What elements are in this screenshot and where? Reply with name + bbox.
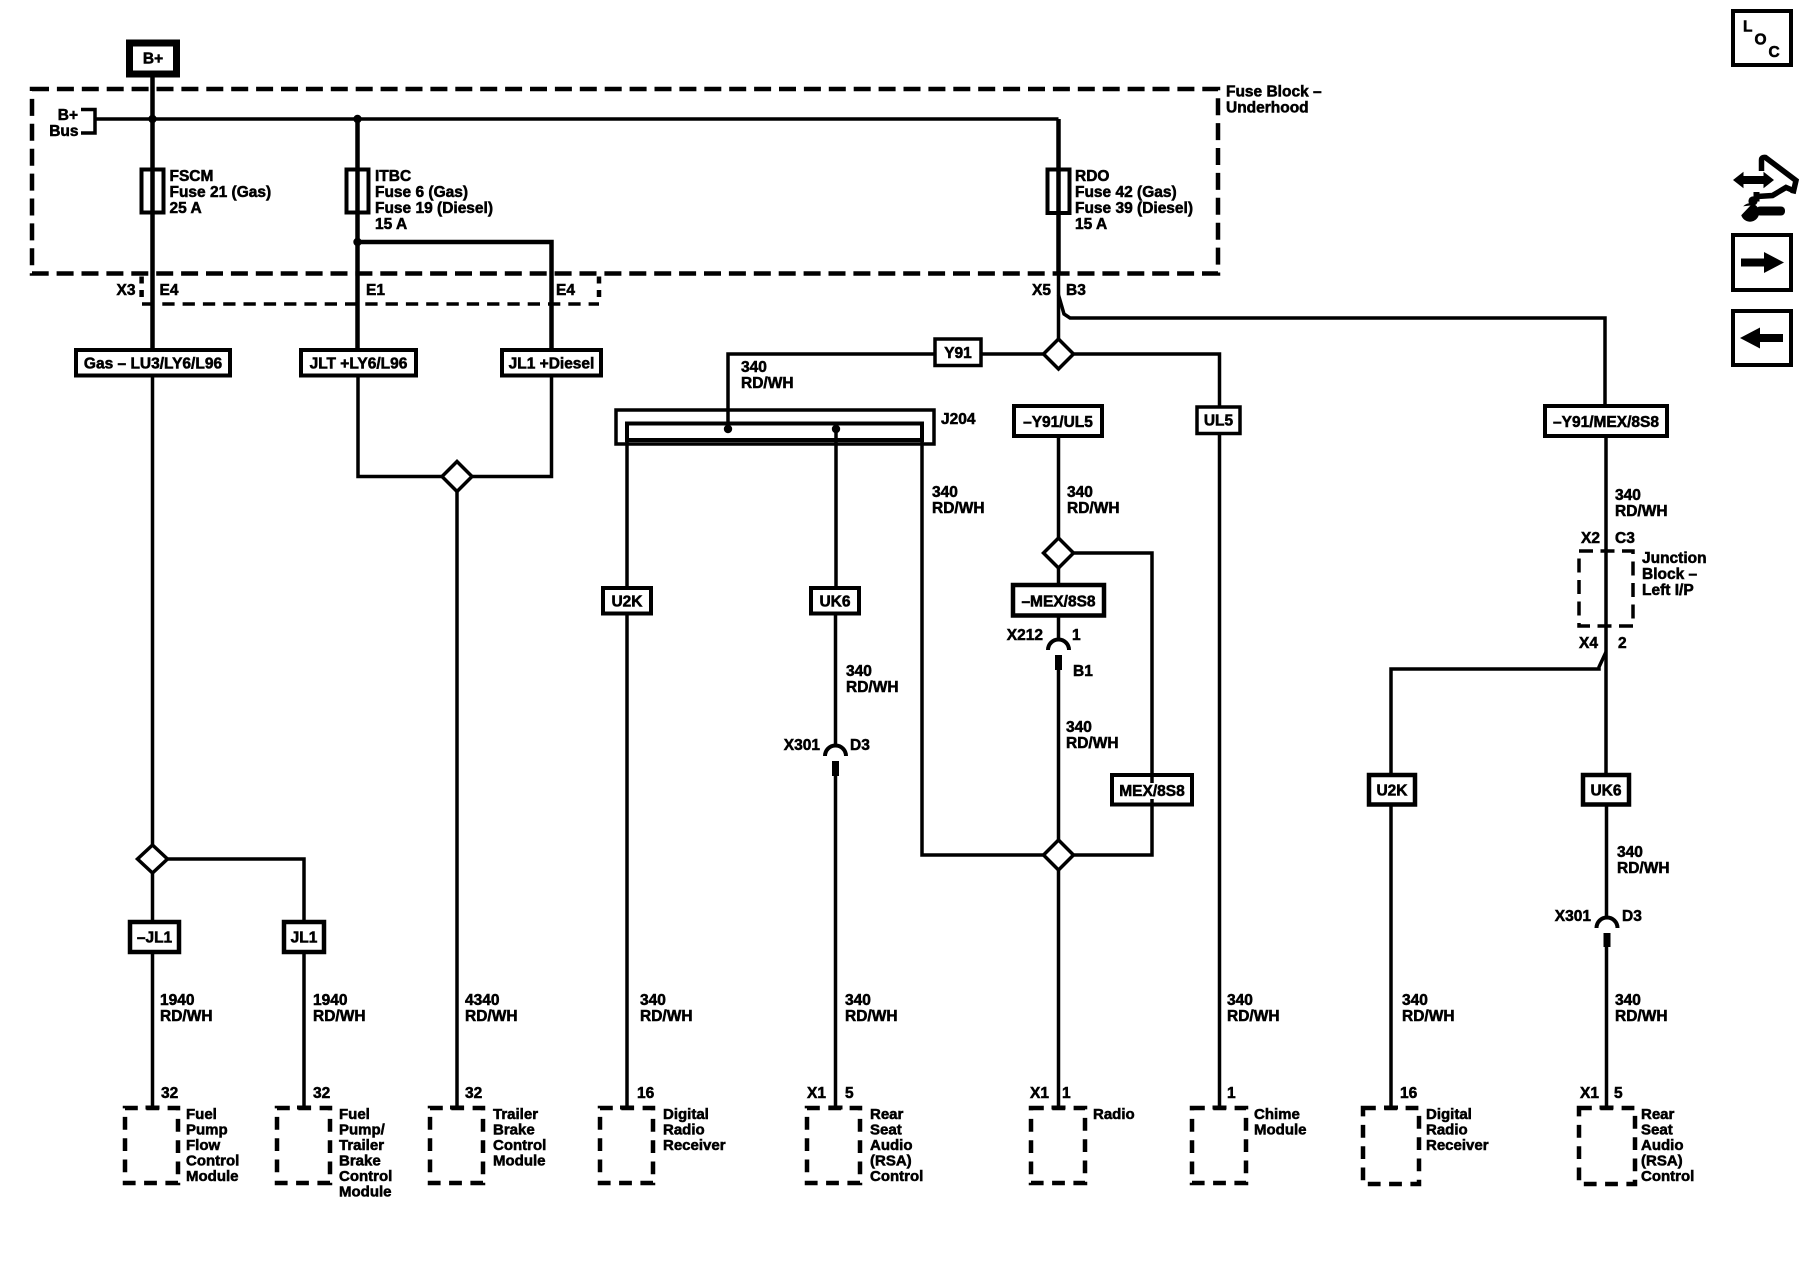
svg-text:Pump/: Pump/ <box>339 1122 386 1139</box>
svg-text:340: 340 <box>1227 992 1253 1009</box>
svg-text:Receiver: Receiver <box>1426 1137 1489 1154</box>
svg-text:Fuse 39 (Diesel): Fuse 39 (Diesel) <box>1075 200 1193 217</box>
svg-text:Seat: Seat <box>1641 1122 1673 1139</box>
svg-text:JL1 +Diesel: JL1 +Diesel <box>509 356 595 373</box>
svg-text:Underhood: Underhood <box>1226 100 1309 117</box>
svg-text:RD/WH: RD/WH <box>1402 1008 1455 1025</box>
svg-text:RD/WH: RD/WH <box>1227 1008 1280 1025</box>
option box U2K <box>603 588 651 614</box>
wire J204 right tap down <box>922 440 1044 855</box>
wire JLT drop to merge diamond <box>358 376 444 477</box>
svg-text:Gas – LU3/LY6/L96: Gas – LU3/LY6/L96 <box>84 356 223 373</box>
fuse ITBC Fuse 6 <box>347 170 369 213</box>
option box -MEX/8S8 <box>1013 585 1104 616</box>
svg-text:1: 1 <box>1072 627 1081 644</box>
svg-text:1: 1 <box>1062 1085 1071 1102</box>
option box Gas LU3/LY6/L96 <box>76 350 230 376</box>
svg-text:Brake: Brake <box>493 1122 535 1139</box>
svg-text:–JL1: –JL1 <box>137 930 173 947</box>
svg-text:Control: Control <box>1641 1168 1694 1185</box>
svg-text:Audio: Audio <box>1641 1137 1684 1154</box>
svg-text:Brake: Brake <box>339 1153 381 1170</box>
wire -Y91/UL5 drop <box>1057 436 1061 538</box>
svg-text:340: 340 <box>1066 719 1092 736</box>
wire label 340 RD/WH col7 <box>1227 992 1280 1025</box>
svg-text:RD/WH: RD/WH <box>845 1008 898 1025</box>
wire branch to JL1 box <box>168 859 305 922</box>
svg-text:Receiver: Receiver <box>663 1137 726 1154</box>
svg-text:RD/WH: RD/WH <box>932 500 985 517</box>
svg-text:Trailer: Trailer <box>493 1106 538 1123</box>
svg-text:C3: C3 <box>1615 530 1635 547</box>
wire UL5 to chime module <box>1218 434 1222 1108</box>
svg-text:Module: Module <box>1254 1122 1307 1139</box>
wire label 340 RD/WH col9 <box>1615 992 1668 1025</box>
junction dot JL1 branch <box>353 238 361 246</box>
svg-text:X1: X1 <box>1030 1085 1049 1102</box>
wire branch to JL1 diesel drop <box>358 242 552 350</box>
svg-text:Control: Control <box>493 1137 546 1154</box>
svg-text:Control: Control <box>870 1168 923 1185</box>
wire diamond to radio <box>1057 870 1061 1107</box>
option box -JL1 <box>130 922 179 952</box>
wire JL1 to fuel pump trailer module <box>302 952 306 1107</box>
svg-text:Trailer: Trailer <box>339 1137 384 1154</box>
junction dot J204 feed <box>724 425 732 433</box>
fuse FSCM value label <box>170 168 272 217</box>
svg-text:B+: B+ <box>143 51 163 68</box>
svg-text:UK6: UK6 <box>1590 783 1621 800</box>
wire -Y91/MEX/8S8 to junction block <box>1604 436 1608 626</box>
connector separator X3 <box>139 277 144 300</box>
svg-text:1940: 1940 <box>160 992 194 1009</box>
connector X212 pass-through B1 <box>1007 627 1093 680</box>
svg-text:MEX/8S8: MEX/8S8 <box>1119 783 1185 800</box>
svg-text:32: 32 <box>161 1085 178 1102</box>
wire label 340 RD/WH col4 <box>640 992 693 1025</box>
svg-text:X301: X301 <box>784 737 821 754</box>
connector row dashed line <box>142 302 599 306</box>
svg-text:Fuel: Fuel <box>339 1106 370 1123</box>
svg-text:Audio: Audio <box>870 1137 913 1154</box>
wire U2K to digital radio receiver right <box>1389 805 1393 1108</box>
wire RDO below fuse block <box>1057 274 1061 340</box>
svg-text:340: 340 <box>1615 487 1641 504</box>
module fuel pump/trailer brake control <box>277 1106 392 1201</box>
wire trailer brake module drop <box>455 492 459 1108</box>
svg-text:X3: X3 <box>117 282 136 299</box>
svg-text:Fuse 42 (Gas): Fuse 42 (Gas) <box>1075 184 1177 201</box>
svg-text:25 A: 25 A <box>170 200 202 217</box>
junction dot ITBC feed <box>353 115 361 123</box>
junction block - left I/P dashed box <box>1579 551 1633 626</box>
svg-text:Module: Module <box>186 1168 239 1185</box>
svg-text:RD/WH: RD/WH <box>1617 860 1670 877</box>
wire to -JL1 box <box>151 873 155 922</box>
wire J204 to UK6 <box>834 429 838 588</box>
svg-text:340: 340 <box>846 663 872 680</box>
wire label 340 RD/WH J204 feed <box>741 359 794 392</box>
svg-text:340: 340 <box>1402 992 1428 1009</box>
wire label 340 RD/WH col8 <box>1402 992 1455 1025</box>
connector separator right E4 <box>597 277 602 300</box>
wire label 340 RD/WH UK6 drop <box>846 663 899 696</box>
svg-text:1940: 1940 <box>313 992 347 1009</box>
svg-text:X4: X4 <box>1579 635 1598 652</box>
wire B+ drop to FSCM fuse <box>150 77 155 350</box>
wire branch to -Y91/MEX/8S8 run <box>1059 295 1606 406</box>
junction dot J204 tap <box>832 425 840 433</box>
svg-text:4340: 4340 <box>465 992 499 1009</box>
module fuel pump flow control <box>125 1106 239 1185</box>
wire label 4340 RD/WH col3 <box>465 992 518 1025</box>
svg-text:X301: X301 <box>1555 908 1592 925</box>
option box -Y91/UL5 <box>1014 406 1102 436</box>
fuse block - underhood dashed enclosure <box>32 89 1218 274</box>
svg-text:E1: E1 <box>366 282 385 299</box>
wire UK6 right to X301 <box>1605 805 1609 919</box>
splice diamond radio <box>1044 840 1074 870</box>
svg-text:U2K: U2K <box>611 594 643 611</box>
svg-text:Module: Module <box>339 1184 392 1201</box>
wire Y91 to J204 feed <box>728 354 935 427</box>
svg-text:15 A: 15 A <box>1075 216 1107 233</box>
junction dot FSCM feed <box>148 115 156 123</box>
svg-text:Y91: Y91 <box>944 345 972 362</box>
connector X301 right pass-through D3 <box>1555 908 1642 947</box>
wire U2K to digital radio receiver <box>625 614 629 1108</box>
splice diamond fuel pump branch <box>138 845 168 873</box>
module digital radio receiver <box>600 1106 726 1183</box>
icon service/repair wrench <box>1733 157 1796 221</box>
wire label 340 RD/WH right run <box>1615 487 1668 520</box>
svg-text:Radio: Radio <box>1093 1106 1135 1123</box>
fuse RDO value label <box>1075 168 1193 233</box>
wire diamond to -MEX/8S8 <box>1057 568 1061 585</box>
svg-text:1: 1 <box>1227 1085 1236 1102</box>
wire label 1940 RD/WH col1 <box>160 992 213 1025</box>
wire X301 right to RSA control right <box>1605 947 1609 1107</box>
wire -JL1 to fuel pump flow module <box>151 952 155 1107</box>
svg-text:Control: Control <box>339 1168 392 1185</box>
wire JL1 drop to merge diamond <box>470 376 552 477</box>
svg-text:D3: D3 <box>850 737 870 754</box>
icon LOC legend box <box>1733 11 1791 65</box>
module trailer brake control <box>430 1106 546 1183</box>
option box UL5 <box>1197 407 1240 434</box>
option box UK6 <box>811 588 859 614</box>
svg-text:D3: D3 <box>1622 908 1642 925</box>
module digital radio receiver right <box>1363 1106 1489 1184</box>
svg-text:Radio: Radio <box>1426 1122 1468 1139</box>
svg-text:Junction: Junction <box>1642 550 1707 567</box>
svg-text:–Y91/MEX/8S8: –Y91/MEX/8S8 <box>1553 414 1659 431</box>
svg-text:Flow: Flow <box>186 1137 220 1154</box>
option box JL1 <box>284 922 324 952</box>
wire Y91 diamond to UL5 drop <box>1074 354 1220 407</box>
svg-text:16: 16 <box>637 1085 655 1102</box>
svg-text:340: 340 <box>640 992 666 1009</box>
svg-text:B3: B3 <box>1066 282 1086 299</box>
node B+ Bus label <box>49 107 95 140</box>
svg-text:–Y91/UL5: –Y91/UL5 <box>1023 414 1093 431</box>
svg-text:J204: J204 <box>941 411 976 428</box>
wire label 1940 RD/WH col2 <box>313 992 366 1025</box>
svg-text:32: 32 <box>465 1085 482 1102</box>
wire label 340 RD/WH UK6 right drop <box>1617 844 1670 877</box>
wire label 340 RD/WH -Y91/UL5 drop <box>1067 484 1120 517</box>
splice diamond Y91 <box>1044 339 1074 369</box>
option box -Y91/MEX/8S8 <box>1545 406 1667 436</box>
wire label 340 RD/WH J204 right <box>932 484 985 517</box>
svg-text:340: 340 <box>1615 992 1641 1009</box>
svg-text:(RSA): (RSA) <box>1641 1153 1683 1170</box>
connector X301 pass-through D3 <box>784 737 870 776</box>
svg-text:340: 340 <box>741 359 767 376</box>
icon next page arrow <box>1733 235 1791 290</box>
svg-text:RD/WH: RD/WH <box>640 1008 693 1025</box>
svg-text:RD/WH: RD/WH <box>1615 503 1668 520</box>
module chime module <box>1192 1106 1307 1183</box>
svg-text:B1: B1 <box>1073 663 1093 680</box>
svg-text:Rear: Rear <box>870 1106 904 1123</box>
splice pack J204 outer <box>616 410 934 444</box>
wire B+ bus horizontal <box>95 117 1059 121</box>
svg-text:X1: X1 <box>807 1085 826 1102</box>
svg-text:Fuse 19 (Diesel): Fuse 19 (Diesel) <box>375 200 493 217</box>
option box JL1 +Diesel <box>502 350 601 376</box>
pin X1 5 col9 <box>1580 1085 1623 1102</box>
wire label 340 RD/WH col5 <box>845 992 898 1025</box>
svg-text:E4: E4 <box>556 282 575 299</box>
wire UK6 to X301 <box>834 614 838 747</box>
svg-text:Bus: Bus <box>49 123 78 140</box>
svg-text:JLT +LY6/L96: JLT +LY6/L96 <box>310 356 408 373</box>
svg-text:C: C <box>1769 44 1780 61</box>
wire label 340 RD/WH X212 drop <box>1066 719 1119 752</box>
svg-text:RD/WH: RD/WH <box>741 375 794 392</box>
svg-text:E4: E4 <box>160 282 179 299</box>
svg-text:Seat: Seat <box>870 1122 902 1139</box>
fuse block label <box>1226 84 1322 117</box>
svg-text:340: 340 <box>932 484 958 501</box>
svg-text:RDO: RDO <box>1075 168 1109 185</box>
battery feed B+ terminal <box>130 43 177 74</box>
svg-text:FSCM: FSCM <box>170 168 214 185</box>
wire X301 to RSA control <box>834 776 838 1107</box>
svg-text:Fuse 6 (Gas): Fuse 6 (Gas) <box>375 184 468 201</box>
svg-text:32: 32 <box>313 1085 330 1102</box>
svg-text:X2: X2 <box>1581 530 1600 547</box>
svg-text:Module: Module <box>493 1153 546 1170</box>
svg-text:2: 2 <box>1618 635 1627 652</box>
module rear seat audio control <box>807 1106 923 1185</box>
svg-text:Left I/P: Left I/P <box>1642 582 1694 599</box>
wire Y91 box to diamond <box>981 352 1044 356</box>
svg-text:RD/WH: RD/WH <box>1067 500 1120 517</box>
svg-text:5: 5 <box>1614 1085 1623 1102</box>
option box MEX/8S8 <box>1112 775 1192 805</box>
svg-text:X1: X1 <box>1580 1085 1599 1102</box>
svg-text:Radio: Radio <box>663 1122 705 1139</box>
svg-text:Control: Control <box>186 1153 239 1170</box>
svg-text:RD/WH: RD/WH <box>1066 735 1119 752</box>
module pin ticks <box>146 1106 1614 1110</box>
splice pack J204 inner bar <box>627 424 922 441</box>
svg-text:340: 340 <box>845 992 871 1009</box>
svg-text:340: 340 <box>1617 844 1643 861</box>
wire branch to right U2K <box>1391 652 1606 775</box>
svg-text:Rear: Rear <box>1641 1106 1675 1123</box>
option box UK6 right <box>1583 775 1629 805</box>
option box Y91 <box>935 339 981 366</box>
junction block label <box>1642 550 1707 599</box>
splice diamond JLT/JL1 merge <box>442 462 472 492</box>
svg-text:RD/WH: RD/WH <box>465 1008 518 1025</box>
svg-text:(RSA): (RSA) <box>870 1153 912 1170</box>
svg-text:Digital: Digital <box>663 1106 709 1123</box>
pin X1 1 col6 <box>1030 1085 1071 1102</box>
wire RDO feed drop <box>1056 119 1061 274</box>
svg-text:RD/WH: RD/WH <box>846 679 899 696</box>
module radio <box>1031 1106 1135 1183</box>
svg-text:Chime: Chime <box>1254 1106 1300 1123</box>
icon previous page arrow <box>1733 311 1791 365</box>
svg-text:340: 340 <box>1067 484 1093 501</box>
splice diamond MEX branch <box>1044 538 1074 568</box>
svg-text:Digital: Digital <box>1426 1106 1472 1123</box>
module rear seat audio control right <box>1579 1106 1694 1185</box>
wire J204 to U2K <box>625 440 629 588</box>
svg-text:UK6: UK6 <box>819 594 850 611</box>
svg-text:B+: B+ <box>58 107 78 124</box>
svg-text:5: 5 <box>845 1085 854 1102</box>
svg-text:RD/WH: RD/WH <box>1615 1008 1668 1025</box>
svg-text:Block –: Block – <box>1642 566 1698 583</box>
svg-text:15 A: 15 A <box>375 216 407 233</box>
wire X212 to radio diamond <box>1057 670 1061 840</box>
fuse RDO Fuse 42 <box>1048 170 1070 214</box>
option box JLT +LY6/L96 <box>301 350 416 376</box>
svg-text:RD/WH: RD/WH <box>160 1008 213 1025</box>
wire MEX/8S8 branch <box>1074 553 1153 855</box>
svg-text:Fuse 21 (Gas): Fuse 21 (Gas) <box>170 184 272 201</box>
svg-text:Pump: Pump <box>186 1122 228 1139</box>
wire -MEX/8S8 to X212 <box>1057 616 1061 641</box>
svg-text:–MEX/8S8: –MEX/8S8 <box>1021 594 1095 611</box>
svg-text:U2K: U2K <box>1376 783 1408 800</box>
fuse FSCM Fuse 21 <box>142 170 164 213</box>
pin X1 5 col5 <box>807 1085 854 1102</box>
svg-text:UL5: UL5 <box>1204 413 1234 430</box>
wire ITBC feed drop <box>355 119 360 350</box>
svg-text:Fuse Block –: Fuse Block – <box>1226 84 1322 101</box>
svg-text:JL1: JL1 <box>291 930 318 947</box>
svg-text:Fuel: Fuel <box>186 1106 217 1123</box>
option box U2K right <box>1369 775 1415 805</box>
svg-text:16: 16 <box>1400 1085 1418 1102</box>
svg-text:RD/WH: RD/WH <box>313 1008 366 1025</box>
svg-text:L: L <box>1743 19 1752 36</box>
wire junction block through UK6 <box>1604 626 1608 775</box>
svg-text:X5: X5 <box>1032 282 1051 299</box>
fuse ITBC value label <box>375 168 493 233</box>
svg-text:O: O <box>1755 32 1767 49</box>
wire left column Gas drop <box>151 376 155 846</box>
svg-text:X212: X212 <box>1007 627 1043 644</box>
svg-text:ITBC: ITBC <box>375 168 411 185</box>
